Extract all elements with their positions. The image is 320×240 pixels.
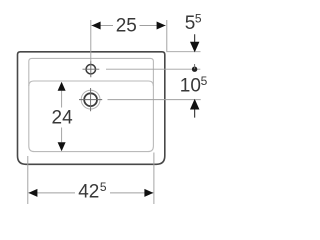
svg-text:42: 42 xyxy=(78,181,99,202)
tap centerline extension right xyxy=(106,68,200,70)
svg-text:5: 5 xyxy=(201,74,208,88)
dim 24 dimension line xyxy=(61,91,63,143)
washbasin outer outline xyxy=(18,52,165,165)
dim 25 left arrow xyxy=(92,22,101,30)
dim 24 down arrow xyxy=(58,142,66,151)
dim 42.5 right extension line xyxy=(153,153,155,205)
drain centerline extension right xyxy=(108,99,201,101)
dim 42.5 dimension line xyxy=(28,192,153,194)
tap hole circle xyxy=(86,65,95,74)
dim 5.5 arrow (down) xyxy=(191,34,199,51)
svg-text:25: 25 xyxy=(116,15,137,36)
drain crosshair xyxy=(79,88,102,111)
dim 42.5 right arrow xyxy=(144,189,153,197)
dim 10.5 dot xyxy=(192,67,197,72)
dim 10.5 arrow (up) xyxy=(191,100,199,118)
svg-text:5: 5 xyxy=(100,180,107,194)
tap hole crosshair xyxy=(83,61,100,77)
bowl back edge (ledge line) xyxy=(29,81,154,86)
dim 24 up arrow xyxy=(58,82,66,91)
svg-text:10: 10 xyxy=(180,76,201,97)
dim 25 right arrow xyxy=(157,22,166,30)
dim 25 right extension line + 5.5 top reference line xyxy=(167,20,201,52)
svg-text:24: 24 xyxy=(52,107,74,128)
drain outer circle xyxy=(81,90,100,109)
dim 25 left extension line xyxy=(90,20,92,62)
dim 25 dimension line xyxy=(91,25,165,27)
svg-text:5: 5 xyxy=(195,11,202,25)
dim 42.5 left arrow xyxy=(28,189,37,197)
drain inner circle xyxy=(84,93,97,106)
washbasin inner rim (top opening) xyxy=(29,58,154,151)
dim 42.5 left extension line xyxy=(27,156,29,204)
svg-text:5: 5 xyxy=(185,13,196,34)
